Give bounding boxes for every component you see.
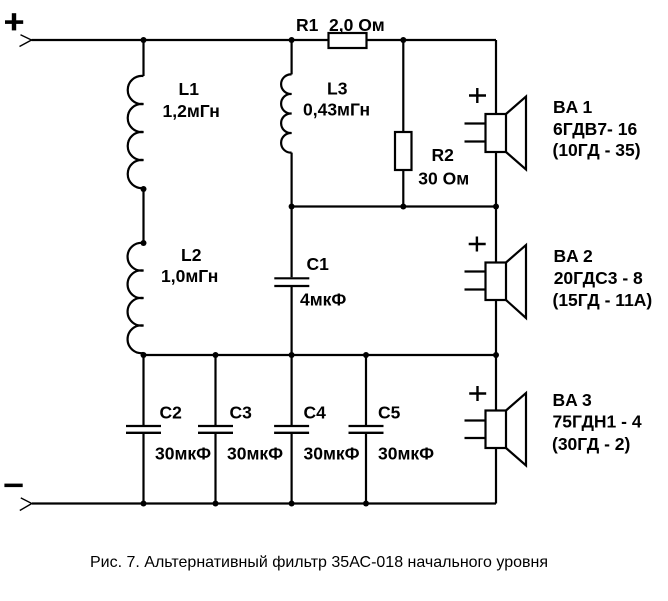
svg-text:30мкФ: 30мкФ <box>227 444 283 464</box>
svg-text:R2: R2 <box>432 145 455 165</box>
svg-text:0,43мГн: 0,43мГн <box>303 100 370 120</box>
svg-text:1,2мГн: 1,2мГн <box>163 101 220 121</box>
svg-text:L3: L3 <box>327 79 348 99</box>
svg-text:30мкФ: 30мкФ <box>155 444 211 464</box>
svg-text:(30ГД - 2): (30ГД - 2) <box>552 434 630 454</box>
svg-text:C2: C2 <box>160 403 183 423</box>
svg-text:C4: C4 <box>304 403 327 423</box>
svg-text:75ГДН1 - 4: 75ГДН1 - 4 <box>553 412 642 432</box>
svg-text:BA 3: BA 3 <box>553 390 592 410</box>
svg-text:C3: C3 <box>230 403 253 423</box>
svg-text:BA 1: BA 1 <box>553 97 592 117</box>
svg-text:Рис. 7. Альтернативный фильтр: Рис. 7. Альтернативный фильтр 35АС-018 н… <box>90 554 548 571</box>
svg-text:BA 2: BA 2 <box>554 246 593 266</box>
svg-text:(10ГД - 35): (10ГД - 35) <box>553 140 641 160</box>
svg-text:30 Ом: 30 Ом <box>418 168 469 188</box>
svg-text:C5: C5 <box>378 403 401 423</box>
svg-text:C1: C1 <box>307 254 330 274</box>
svg-text:2,0 Ом: 2,0 Ом <box>329 15 385 35</box>
svg-text:(15ГД - 11А): (15ГД - 11А) <box>553 290 653 310</box>
svg-text:6ГДВ7- 16: 6ГДВ7- 16 <box>553 119 637 139</box>
svg-text:20ГДС3 - 8: 20ГДС3 - 8 <box>554 268 643 288</box>
svg-text:L1: L1 <box>179 79 200 99</box>
svg-text:30мкФ: 30мкФ <box>378 444 434 464</box>
svg-text:1,0мГн: 1,0мГн <box>161 266 218 286</box>
svg-text:4мкФ: 4мкФ <box>300 290 346 310</box>
svg-text:L2: L2 <box>181 245 202 265</box>
svg-text:30мкФ: 30мкФ <box>304 444 360 464</box>
svg-text:R1: R1 <box>296 15 319 35</box>
